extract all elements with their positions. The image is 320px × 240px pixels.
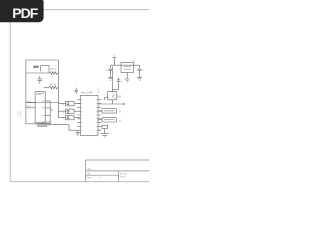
svg-text:PDF: PDF: [12, 5, 38, 21]
title block: [86, 160, 150, 182]
sheet frame bottom border: [10, 181, 149, 183]
sheet frame left border: [9, 22, 11, 182]
svg-text:Title: Title: [87, 168, 92, 171]
pin stub right node C: [45, 100, 50, 102]
module U2 outer box: [26, 60, 59, 103]
resistor network box RN3: [66, 116, 75, 120]
svg-text:wire_1394: wire_1394: [81, 91, 94, 95]
wire IC pin 10 to diode box: [104, 98, 107, 101]
wire module to IC pin 9: [50, 125, 77, 131]
ground GND4 under regulator: [125, 72, 130, 82]
sheet frame top border: [40, 9, 149, 11]
relay K2 box: [102, 118, 117, 122]
svg-text:Date:: Date:: [87, 177, 93, 180]
IC U2 inner box: [35, 92, 45, 123]
ground GND5 under C4: [137, 77, 142, 80]
regulator U3 box: [121, 63, 134, 73]
ground GND2 below connector: [101, 129, 109, 137]
IC U1 box: [80, 95, 98, 135]
wire from box left edge to pushbutton/R1: [26, 72, 49, 74]
capacitor C4: [138, 65, 142, 77]
svg-text:R2 K: R2 K: [50, 83, 56, 87]
wire regulator output down: [111, 67, 113, 105]
wire to resistor R2: [44, 87, 49, 89]
IC U1 right pins: [98, 100, 101, 130]
capacitor C1: [37, 76, 42, 84]
bus to RN boxes wire: [57, 103, 59, 118]
pin stub node B: [26, 107, 35, 109]
svg-text:Rev A: Rev A: [120, 176, 127, 179]
svg-text:R1 K: R1 K: [50, 67, 56, 71]
resistor network box RN1: [66, 102, 75, 106]
resistor R2: [49, 86, 58, 89]
module name label: [37, 124, 51, 127]
IC U2 top label row: [37, 93, 44, 94]
module U2 lower left outline: [26, 103, 36, 124]
ground GND1 near IC pin 8: [75, 130, 80, 135]
power flag VCC: [112, 58, 116, 66]
resistor network box RN2: [66, 109, 75, 113]
switch SW1 label: [33, 66, 39, 67]
capacitor C3: [108, 65, 112, 77]
ground GND3 under C3: [108, 77, 113, 80]
IC U1 pin numbers: [81, 100, 97, 130]
junction dot: [51, 109, 52, 110]
svg-text:Sheet 1: Sheet 1: [120, 172, 129, 175]
pin bus wire: [49, 101, 51, 125]
capacitor C5: [112, 78, 120, 90]
pin name marks inside inner box: [42, 101, 45, 122]
title block texts: [87, 168, 129, 180]
pin stub right node F: [45, 121, 50, 123]
pin stub right node D: [45, 107, 50, 109]
relay K1 box: [102, 109, 117, 113]
supply rail wire: [110, 64, 139, 66]
resistor R1: [49, 72, 58, 75]
svg-text:U: U: [97, 87, 99, 90]
pushbutton SW1: [41, 66, 49, 72]
power wire node VCC to IC: [98, 103, 124, 105]
pin stub right node E: [45, 114, 50, 116]
connector J2 box: [102, 125, 108, 128]
svg-text:V: V: [98, 90, 100, 94]
capacitor C2 above IC: [75, 88, 78, 94]
diode D1 cathode marks: [112, 95, 114, 99]
svg-text:File:: File:: [87, 173, 92, 175]
IC U1 left pins: [77, 100, 80, 130]
PDF badge: [0, 0, 44, 22]
diode box D1: [108, 92, 117, 100]
svg-text:P: P: [119, 110, 121, 114]
svg-text:5M: 5M: [118, 94, 122, 98]
pin stub node A: [26, 102, 35, 104]
